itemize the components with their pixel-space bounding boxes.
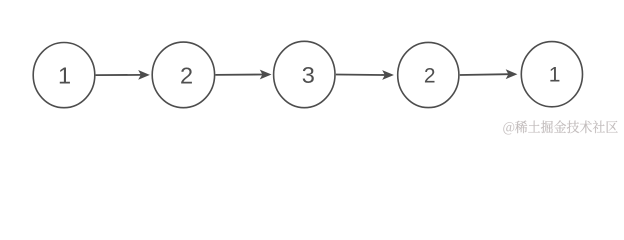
svg-text:3: 3 [302, 62, 315, 88]
svg-text:1: 1 [58, 63, 71, 89]
svg-text:2: 2 [424, 65, 436, 88]
svg-text:2: 2 [180, 62, 193, 88]
svg-text:1: 1 [549, 64, 561, 87]
